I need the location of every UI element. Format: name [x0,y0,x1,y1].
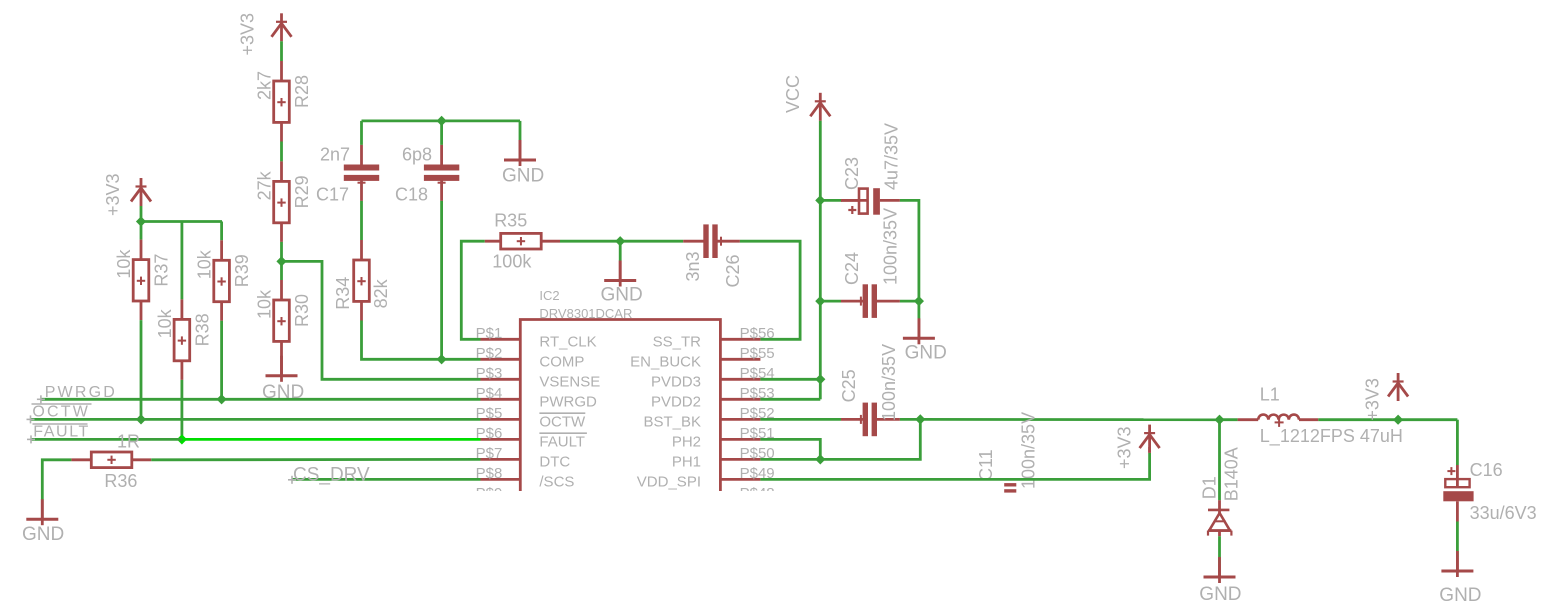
svg-text:100n/35V: 100n/35V [881,208,901,285]
net FAULT wire (bright) [182,438,481,441]
wire tap down [619,241,622,261]
pin DTC (P$7) stub+labels [476,445,571,471]
pin RT_CLK (P$1) stub+labels [476,325,597,351]
wire C16 to GND [1456,522,1459,558]
svg-text:33u/6V3: 33u/6V3 [1470,503,1537,523]
svg-text:10k: 10k [155,308,175,338]
svg-text:D1: D1 [1199,476,1219,499]
svg-text:IC2: IC2 [539,288,559,303]
svg-text:3n3: 3n3 [683,251,703,281]
wire R35 to C26 [560,240,683,243]
wire +3V3 to R28 [280,41,283,61]
svg-text:OCTW: OCTW [32,404,90,421]
wire +3V3 to rail [140,206,143,222]
pin VDD_SPI (P$49) stub+labels [637,465,775,491]
svg-text:P$1: P$1 [476,325,503,342]
pin PVDD3 (P$54) stub+labels [651,365,775,391]
svg-text:FAULT: FAULT [539,433,585,450]
resistor R29 [255,161,313,242]
junction C18/top rail [437,116,447,126]
wire R36 to P$7 (DTC) [151,458,480,461]
capacitor C11 100n/35V [976,412,1038,493]
junction R29/R30/VSENSE [276,256,286,266]
wire top rail to GND [519,121,522,140]
svg-text:PVDD2: PVDD2 [651,393,701,410]
svg-text:R34: R34 [333,277,353,310]
wire node to P$3 (VSENSE) [282,261,481,379]
wire to L1 [1220,418,1238,421]
svg-text:EN_BUCK: EN_BUCK [630,353,701,370]
svg-text:RT_CLK: RT_CLK [539,333,596,350]
ground (mid) [601,261,643,306]
svg-text:B140A: B140A [1222,447,1242,501]
pin FAULT (P$6) stub+labels [476,425,587,451]
svg-text:C18: C18 [395,185,428,205]
junction BST_BK/PH2 net [915,414,925,424]
svg-text:P$3: P$3 [476,365,503,382]
wire rail to C17 [360,121,363,145]
svg-text:C16: C16 [1470,460,1503,480]
svg-text:P$2: P$2 [476,345,503,362]
svg-text:VSENSE: VSENSE [539,373,600,390]
wire D1 to GND [1218,536,1221,564]
pin COMP (P$2) stub+labels [476,345,585,371]
ground (under D1) [1199,557,1241,604]
pin PVDD2 (P$53) stub+labels [651,385,775,411]
wire P$51 (PH2) [760,439,820,459]
svg-text:SS_TR: SS_TR [653,333,702,350]
inductor L1 L_1212FPS 47uH [1238,384,1403,447]
junction VCC/C24 [815,296,825,306]
svg-text:100k: 100k [492,252,532,272]
svg-text:C23: C23 [842,157,862,190]
wire R34 to P$2 (COMP) [362,321,481,360]
junction R39/PWRGD [217,394,227,404]
svg-text:R38: R38 [192,313,212,346]
net label OCTW [32,404,92,421]
pin PH1 (P$50) stub+labels [672,445,775,471]
wire P$53 (PVDD2) [760,398,820,401]
wire VCC rail [819,121,822,201]
net FAULT cross [27,435,35,443]
svg-text:R37: R37 [152,254,172,287]
svg-text:P$55: P$55 [740,345,775,362]
wire rail to R39 [220,222,223,241]
svg-text:82k: 82k [371,278,391,308]
junction GND tap [615,236,625,246]
pin SS_TR (P$56) stub+labels [653,325,775,351]
svg-text:PWRGD: PWRGD [539,393,597,410]
wire R38 to FAULT [180,380,183,440]
wire rail to C18 [440,121,443,145]
svg-text:R29: R29 [292,175,312,208]
IC U IC2 DRV8301DCAR box [520,288,720,491]
resistor R38 [155,299,213,380]
svg-text:C11: C11 [976,449,996,481]
wire top rail [362,120,521,123]
wire R28 to R29 [280,142,283,162]
svg-text:100n/35V: 100n/35V [1019,412,1039,489]
net CS_DRV wire [288,476,481,484]
net label FAULT [33,424,90,441]
ground (top) [502,140,544,187]
wire C17 to R34 [360,201,363,240]
junction VCC/C23 [815,195,825,205]
svg-text:PWRGD: PWRGD [45,384,117,401]
net label CS_DRV [293,465,370,486]
power VCC [783,75,830,121]
power +3V3 (left rail) [103,173,151,216]
wire switch node [920,418,1219,421]
wire L1 to output [1318,418,1457,421]
wire D1 tap down [1218,420,1221,501]
wire junction to GND [918,301,921,319]
capacitor C26 [683,224,743,287]
net PWRGD wire [37,395,481,403]
resistor R37 [114,240,172,321]
svg-text:/SCS: /SCS [539,473,574,490]
wire R39 to PWRGD [220,321,223,400]
ground (under C16) [1439,551,1481,604]
wire GND to R36 [42,460,71,501]
svg-text:2k7: 2k7 [255,71,275,100]
pin PWRGD (P$4) stub+labels [476,385,597,411]
ground under R30 [262,356,304,403]
wire node to R30 [280,261,283,280]
svg-text:R36: R36 [104,471,137,491]
svg-text:R35: R35 [494,211,527,231]
pin EN_BUCK (P$55) stub+labels [630,345,775,371]
wire P$52 (BST_BK) to C25 [760,418,841,421]
wire C24 to junction [900,300,919,303]
power +3V3 (VDD_SPI) [1115,425,1160,469]
junction rail/+3V3 [136,216,146,226]
svg-text:6p8: 6p8 [402,145,432,165]
svg-text:P$56: P$56 [740,325,775,342]
svg-text:+3V3: +3V3 [1115,426,1135,469]
svg-text:C25: C25 [839,369,859,402]
wire VCC rail 2 [819,200,822,301]
wire P$49 (VDD_SPI) [760,453,1149,480]
svg-text:PVDD3: PVDD3 [651,373,701,390]
svg-text:1R: 1R [117,432,140,452]
svg-text:FAULT: FAULT [33,424,90,441]
ground (bottom left) [22,499,64,545]
svg-text:GND: GND [1439,585,1481,604]
svg-text:10k: 10k [114,249,134,279]
svg-text:VCC: VCC [783,75,803,113]
svg-text:BST_BK: BST_BK [643,413,701,430]
junction right rail/C24 [914,296,924,306]
svg-text:COMP: COMP [539,353,584,370]
wire R37 to OCTW [140,320,143,419]
net label PWRGD [45,384,117,401]
svg-text:4u7/35V: 4u7/35V [882,123,902,190]
svg-text:10k: 10k [255,289,275,319]
wire C23 to right rail [900,200,919,301]
svg-text:GND: GND [905,343,947,364]
resistor R36 [71,432,151,491]
svg-text:OCTW: OCTW [539,413,586,430]
net OCTW wire [27,415,481,423]
junction D1 tap [1214,415,1224,425]
junction C18/COMP [437,354,447,364]
svg-text:2n7: 2n7 [320,145,350,165]
wire rail to PVDD2 [819,379,822,399]
wire rail to R37 [140,222,143,240]
svg-text:PH2: PH2 [672,433,701,450]
junction R37/OCTW [136,414,146,424]
junction R38/FAULT [177,434,187,444]
wire P$50 (PH1) [760,419,920,459]
power +3V3 (top) [238,13,292,56]
wire rail top horizontal [141,220,222,223]
svg-text:10k: 10k [195,249,215,279]
capacitor C17 [316,145,379,205]
svg-text:VDD_SPI: VDD_SPI [637,473,701,490]
wire C18 to COMP [440,201,443,359]
svg-text:GND: GND [601,285,643,306]
svg-text:27k: 27k [255,170,275,200]
resistor R30 [255,280,313,359]
svg-text:R30: R30 [292,294,312,327]
svg-text:C26: C26 [723,254,743,287]
svg-text:L_1212FPS 47uH: L_1212FPS 47uH [1260,426,1403,447]
svg-text:+3V3: +3V3 [103,173,123,216]
capacitor C18 [395,145,459,205]
wire R29 to node [280,242,283,262]
power +3V3 (output) [1363,373,1408,421]
resistor R35 [485,211,560,272]
svg-text:C17: C17 [316,185,349,205]
svg-text:DRV8301DCAR: DRV8301DCAR [539,306,632,321]
pin PH2 (P$51) stub+labels [672,425,775,451]
wire VCC rail 3 [819,301,822,379]
svg-text:GND: GND [22,524,64,545]
svg-text:L1: L1 [1260,384,1280,404]
pin P$9 clipped label [476,485,775,502]
capacitor C23 4u7/35V [820,123,901,215]
pin /SCS (P$8) stub+labels [476,465,575,491]
diode D1 B140A [1199,447,1241,536]
wire rail to R38 [180,222,183,300]
junction VCC/PVDD3 [815,374,825,384]
junction PH2/PH1 [815,454,825,464]
resistor R34 [333,240,391,321]
svg-text:PH1: PH1 [672,453,701,470]
svg-text:GND: GND [502,166,544,187]
pin OCTW (P$5) stub+labels [476,405,586,431]
svg-text:R28: R28 [292,75,312,108]
resistor R28 [255,61,313,142]
svg-text:GND: GND [1199,584,1241,604]
svg-text:+3V3: +3V3 [238,13,258,56]
capacitor C25 100n/35V [839,344,900,436]
wire P$54 (PVDD3) [760,378,820,381]
wire P$1 (RT_CLK) to R35 [461,241,485,339]
net FAULT wire (left) [31,438,182,441]
wire C25 to junction [900,418,920,421]
capacitor C24 100n/35V [820,208,900,318]
resistor R39 [195,240,253,320]
svg-text:P$48: P$48 [740,485,775,502]
wire output down to C16 [1456,420,1459,465]
wire C26 to P$56 (SS_TR) [740,241,800,339]
svg-text:R39: R39 [232,254,252,287]
capacitor C16 33u/6V3 [1443,460,1536,523]
pin VSENSE (P$3) stub+labels [476,365,601,391]
svg-text:+3V3: +3V3 [1363,378,1383,421]
pin BST_BK (P$52) stub+labels [643,405,774,431]
svg-text:CS_DRV: CS_DRV [293,465,370,486]
svg-text:C24: C24 [842,252,862,285]
junction +3V3 output [1393,415,1403,425]
svg-text:100n/35V: 100n/35V [879,344,899,421]
ground (right mid) [903,318,947,363]
svg-text:DTC: DTC [539,453,570,470]
svg-text:P$9: P$9 [476,485,503,502]
